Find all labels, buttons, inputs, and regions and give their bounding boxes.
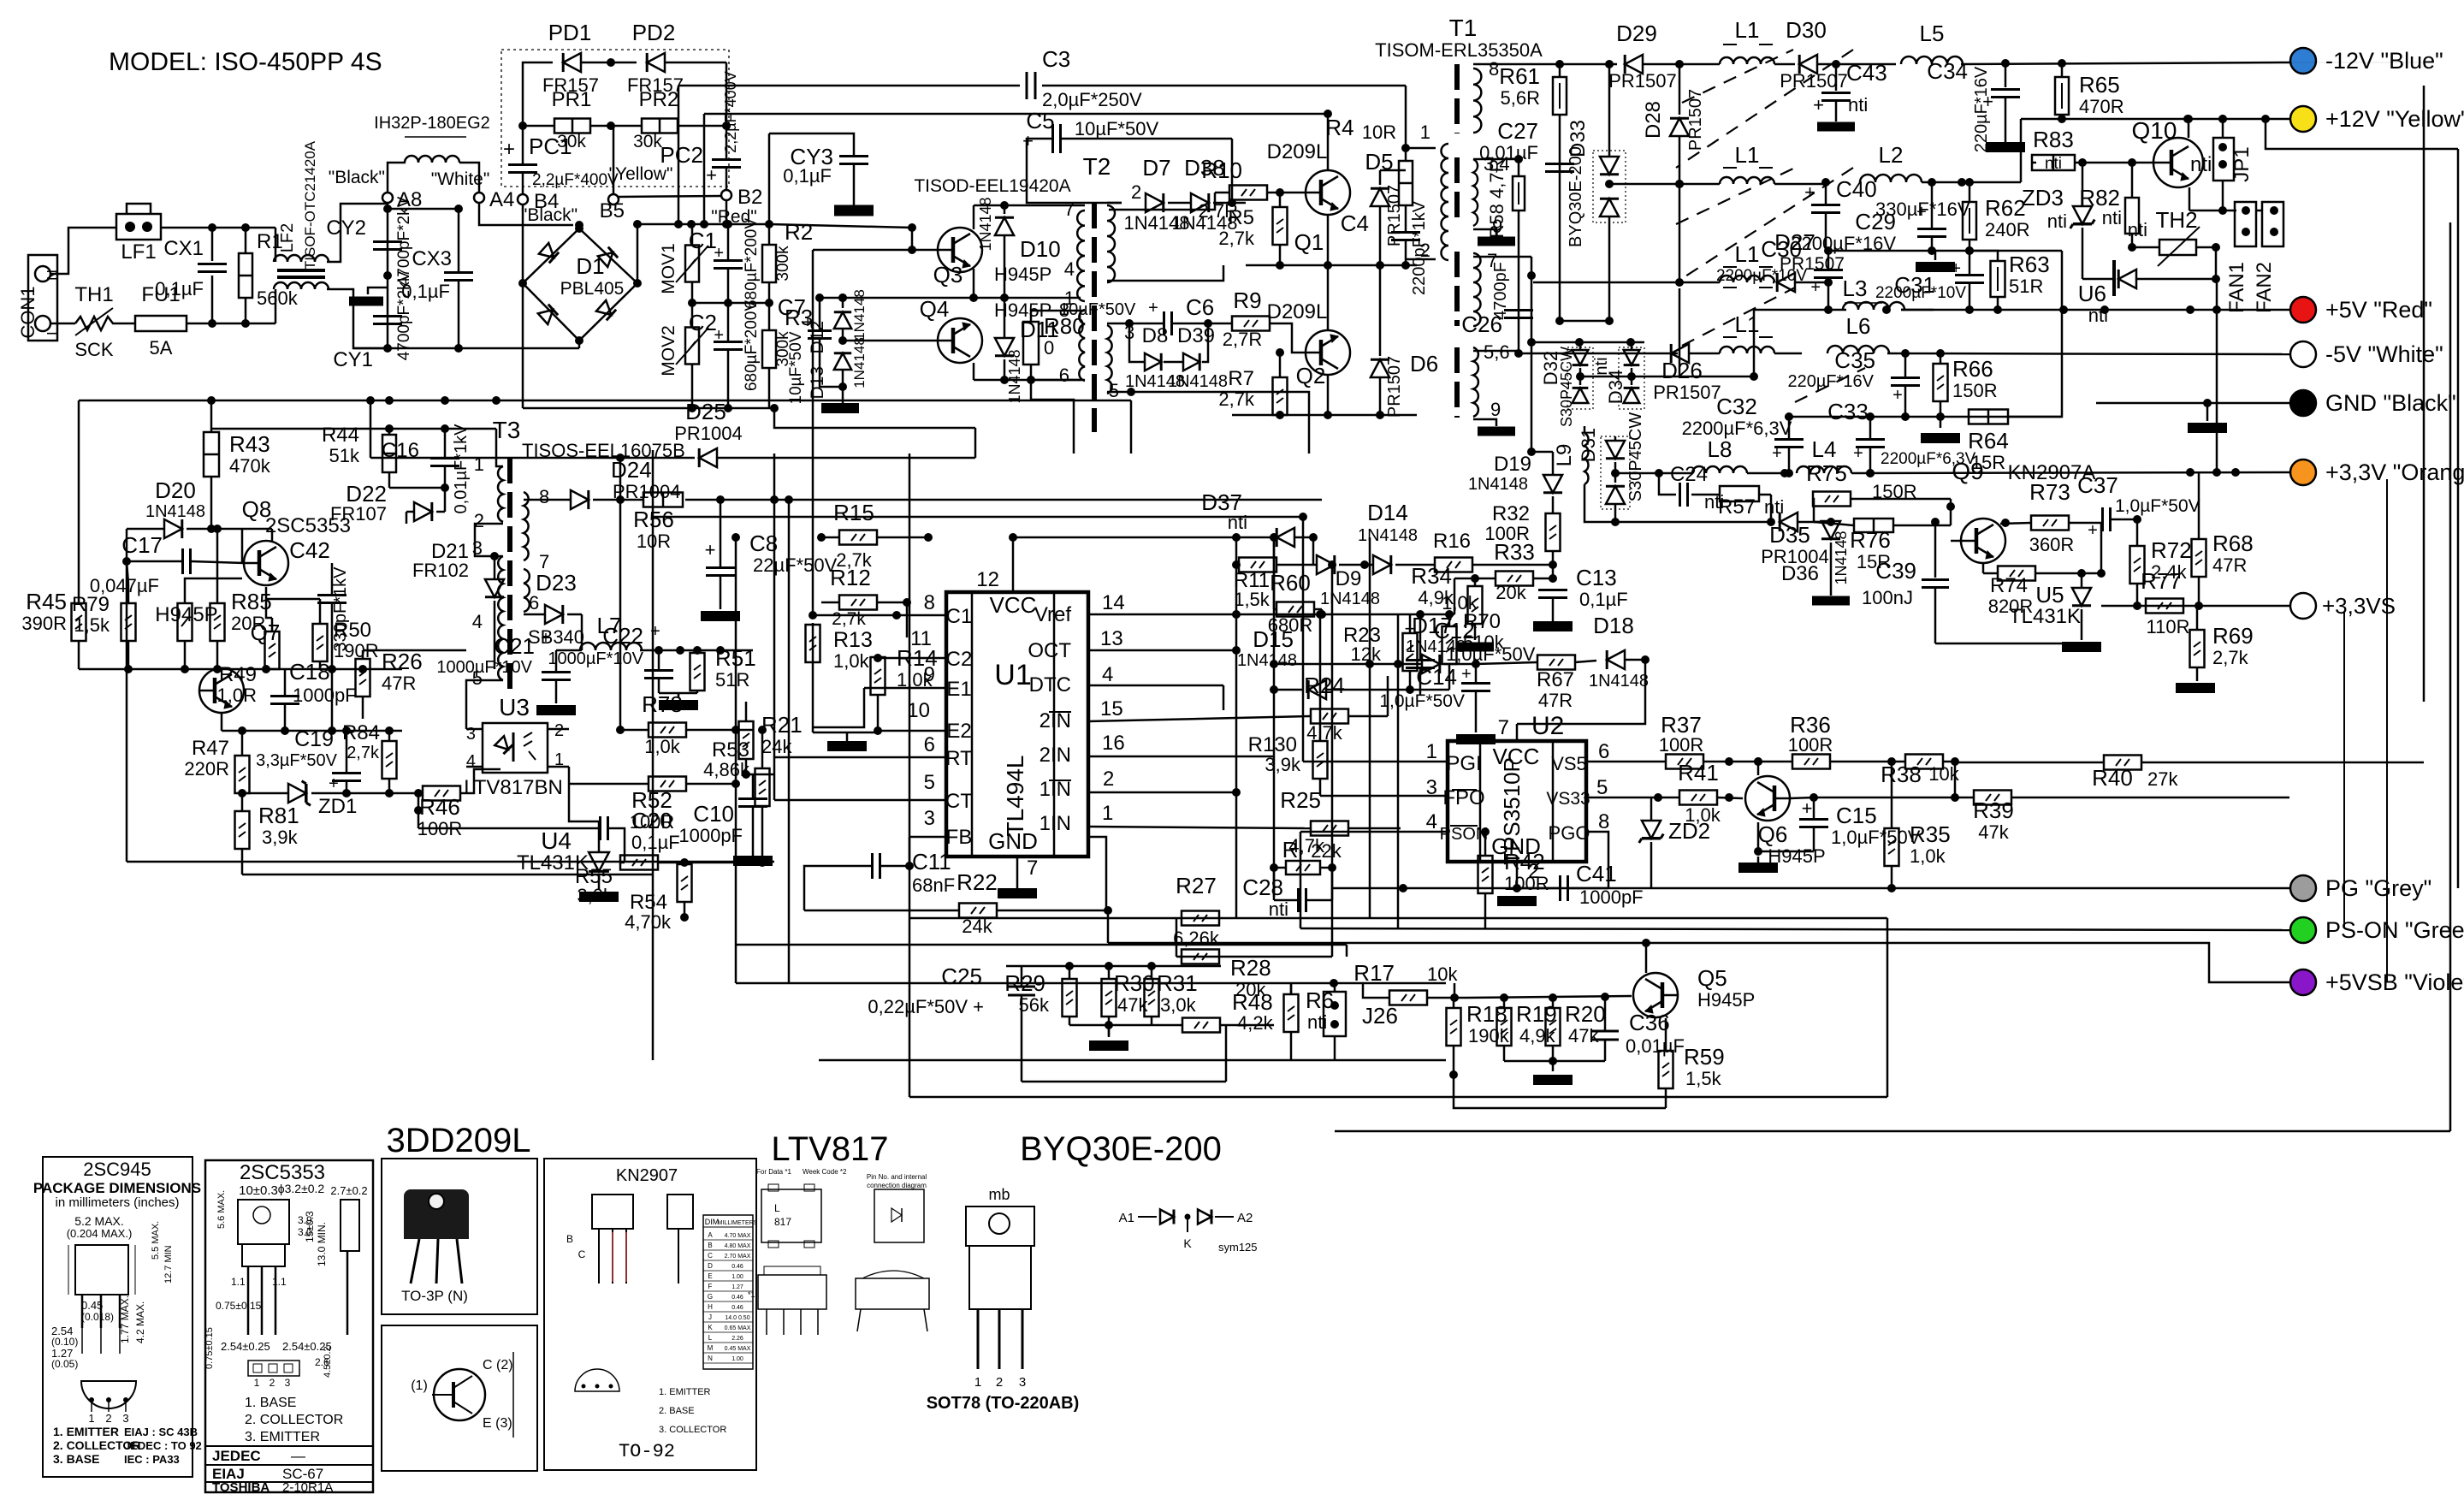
svg-text:PR1507: PR1507 — [1780, 70, 1848, 92]
terminal PG Grey — [2290, 875, 2316, 901]
svg-text:(0.10): (0.10) — [51, 1336, 78, 1348]
svg-text:R59: R59 — [1684, 1044, 1725, 1070]
wire to Q1 — [1232, 202, 1246, 205]
svg-text:3: 3 — [1019, 1375, 1026, 1390]
svg-text:2200µF*10V: 2200µF*10V — [1875, 284, 1966, 302]
svg-text:C34: C34 — [1927, 58, 1968, 84]
resistor R82 — [2125, 198, 2139, 234]
svg-text:D13: D13 — [808, 366, 827, 400]
svg-text:C21: C21 — [494, 633, 535, 659]
resistor R19 — [1497, 1008, 1512, 1046]
svg-text:GND: GND — [988, 828, 1038, 854]
wire A8 to CX3 — [388, 208, 459, 210]
resistor R26 — [356, 659, 370, 697]
svg-text:(0.204 MAX.): (0.204 MAX.) — [67, 1227, 133, 1240]
MOV1 — [685, 246, 699, 282]
svg-text:2.70 MAX: 2.70 MAX — [725, 1254, 751, 1260]
svg-text:PD2: PD2 — [632, 20, 676, 45]
resistor R81 — [235, 811, 250, 849]
svg-text:10±0.3: 10±0.3 — [239, 1183, 278, 1198]
connector FAN1 — [2235, 202, 2256, 246]
svg-text:R63: R63 — [2009, 252, 2050, 277]
wire +B rail — [79, 400, 1131, 402]
svg-text:R22: R22 — [957, 869, 998, 895]
svg-text:PGI: PGI — [1446, 752, 1481, 775]
wire mid rail — [1826, 250, 2062, 252]
wire -12V rail — [1560, 63, 1617, 66]
svg-text:JP1: JP1 — [2230, 146, 2254, 181]
svg-text:ZD3: ZD3 — [2022, 185, 2064, 210]
resistor R29 — [1063, 979, 1077, 1017]
svg-text:C24: C24 — [1670, 463, 1708, 486]
svg-text:PR1507: PR1507 — [1385, 185, 1404, 246]
svg-text:12: 12 — [976, 568, 999, 591]
terminal +3,3V Orange — [2290, 459, 2316, 485]
svg-text:13: 13 — [1100, 627, 1123, 650]
svg-text:4.5±0.2: 4.5±0.2 — [323, 1346, 333, 1378]
svg-text:Q5: Q5 — [1697, 965, 1727, 991]
svg-text:+5VSB "Violet": +5VSB "Violet" — [2325, 969, 2464, 995]
svg-text:TISOF-OTC21420A: TISOF-OTC21420A — [302, 140, 318, 270]
wire +3,3V rail — [1615, 472, 1691, 475]
resistor R63 — [1991, 261, 2005, 297]
resistor R6 — [1284, 994, 1299, 1032]
resistor R70 — [1442, 626, 1457, 664]
svg-text:C37: C37 — [2077, 472, 2118, 498]
ground — [1812, 596, 1850, 606]
svg-text:1,5k: 1,5k — [1685, 1068, 1722, 1089]
wire row 400 — [1531, 341, 1644, 344]
svg-text:R47: R47 — [192, 737, 229, 760]
ground — [998, 888, 1037, 898]
svg-text:3: 3 — [924, 807, 935, 830]
wire Vref row — [1088, 614, 1454, 616]
svg-text:U2: U2 — [1531, 712, 1564, 740]
svg-text:0,01µF: 0,01µF — [1626, 1035, 1685, 1057]
wire pin 5,6 — [1473, 350, 1519, 353]
svg-text:PGO: PGO — [1549, 822, 1590, 844]
LTV817 drawing top left — [761, 1189, 821, 1242]
svg-text:D39: D39 — [1177, 324, 1215, 347]
svg-text:3,9k: 3,9k — [262, 827, 299, 848]
svg-text:0,1µF: 0,1µF — [1579, 589, 1628, 610]
svg-text:4: 4 — [1102, 663, 1113, 686]
wire R27 line — [909, 917, 1887, 920]
terminal +3,3VS — [2290, 593, 2316, 619]
svg-text:PR1507: PR1507 — [1653, 382, 1721, 403]
svg-text:4: 4 — [472, 611, 483, 632]
svg-text:R9: R9 — [1233, 288, 1261, 313]
resistor R35 — [1885, 828, 1899, 866]
svg-text:+: + — [1461, 665, 1472, 684]
svg-text:1,0R: 1,0R — [217, 685, 257, 706]
svg-text:0.46: 0.46 — [731, 1295, 743, 1301]
resistor R18 — [1447, 1008, 1461, 1046]
svg-text:MODEL: ISO-450PP 4S: MODEL: ISO-450PP 4S — [109, 48, 382, 76]
svg-text:+: + — [714, 244, 724, 263]
coupled-inductor dashed lines — [1682, 50, 1793, 103]
svg-text:N: N — [44, 270, 62, 281]
svg-text:220µF*16V: 220µF*16V — [1788, 372, 1875, 391]
wire pin7 drop — [1531, 257, 1533, 452]
ground — [733, 856, 773, 866]
svg-text:8: 8 — [1489, 58, 1499, 80]
svg-text:PG "Grey": PG "Grey" — [2325, 875, 2431, 901]
svg-text:220R: 220R — [184, 758, 229, 780]
svg-text:A1: A1 — [1119, 1211, 1134, 1225]
svg-text:0.65 MAX: 0.65 MAX — [725, 1325, 751, 1331]
svg-text:56k: 56k — [1019, 994, 1050, 1016]
svg-text:R83: R83 — [2033, 127, 2074, 152]
svg-text:3,9k: 3,9k — [1265, 754, 1301, 775]
svg-text:1000µF*10V: 1000µF*10V — [436, 658, 532, 677]
svg-text:+: + — [1813, 94, 1824, 116]
svg-text:H945P: H945P — [1697, 989, 1755, 1011]
ground — [2176, 683, 2215, 693]
svg-text:R20: R20 — [1565, 1001, 1606, 1027]
wire 2INb row — [1088, 716, 1310, 721]
capacitor C41 — [1559, 875, 1561, 901]
svg-text:100R: 100R — [1788, 734, 1833, 756]
capacitor CY1 — [373, 315, 402, 317]
wire FB — [909, 836, 946, 839]
capacitor C11 — [871, 853, 874, 879]
svg-text:TISOM-ERL35350A: TISOM-ERL35350A — [1375, 39, 1543, 61]
resistor R130 — [1313, 741, 1328, 779]
svg-text:-5V "White": -5V "White" — [2325, 341, 2443, 367]
svg-text:TO-3P (N): TO-3P (N) — [401, 1288, 468, 1304]
svg-text:R56: R56 — [633, 507, 674, 532]
transistor Q4 — [938, 318, 982, 363]
svg-text:C42: C42 — [289, 537, 330, 563]
svg-text:R24: R24 — [1304, 673, 1345, 698]
svg-text:R44: R44 — [322, 424, 359, 447]
svg-text:51k: 51k — [329, 445, 360, 466]
svg-text:6: 6 — [1059, 365, 1069, 386]
svg-text:Q7: Q7 — [251, 620, 281, 645]
svg-text:IH32P-180EG2: IH32P-180EG2 — [374, 114, 490, 133]
capacitor CX3 — [458, 209, 460, 272]
svg-text:5,6R: 5,6R — [1501, 87, 1540, 109]
svg-text:0.46: 0.46 — [731, 1264, 743, 1270]
svg-text:2SC945: 2SC945 — [83, 1159, 151, 1180]
svg-text:2,2µF*400V: 2,2µF*400V — [722, 71, 739, 152]
svg-text:FB: FB — [946, 826, 973, 849]
svg-text:47R: 47R — [2212, 554, 2247, 576]
svg-text:L2: L2 — [1879, 142, 1904, 168]
wire verticals mid — [1273, 537, 1276, 897]
svg-text:6: 6 — [924, 733, 935, 756]
resistor R38 — [1905, 755, 1943, 769]
svg-text:C19: C19 — [294, 727, 334, 751]
svg-text:2: 2 — [554, 721, 564, 740]
svg-text:300k: 300k — [774, 246, 792, 282]
svg-text:TH1: TH1 — [74, 283, 113, 306]
svg-text:FR102: FR102 — [412, 560, 469, 581]
svg-text:KN2907: KN2907 — [616, 1166, 678, 1185]
svg-text:H945P: H945P — [155, 603, 217, 626]
svg-text:+: + — [1148, 299, 1158, 317]
svg-text:R57: R57 — [1718, 495, 1756, 519]
resistor R43 — [204, 432, 219, 477]
svg-text:2IN: 2IN — [1039, 709, 1071, 732]
svg-text:PR1507: PR1507 — [1385, 356, 1404, 418]
wire — [126, 528, 128, 531]
ground — [368, 288, 388, 294]
svg-text:F: F — [708, 1283, 713, 1290]
svg-text:1IN: 1IN — [1039, 778, 1071, 801]
svg-text:JEDEC : TO 92: JEDEC : TO 92 — [124, 1439, 202, 1452]
svg-text:A4: A4 — [489, 188, 514, 211]
svg-text:1000pF: 1000pF — [678, 825, 743, 846]
svg-text:D31: D31 — [1578, 428, 1599, 462]
svg-text:1IN: 1IN — [1039, 812, 1071, 835]
svg-text:1: 1 — [974, 1375, 981, 1390]
wire D32 D34 mid row — [1580, 376, 1754, 378]
diode symbol A1 A2 — [1138, 1216, 1157, 1218]
svg-text:10R: 10R — [1362, 122, 1396, 143]
svg-text:TO-92: TO-92 — [619, 1441, 675, 1462]
svg-text:J: J — [708, 1313, 712, 1321]
wire bus2 — [704, 113, 1328, 116]
svg-text:1000pF: 1000pF — [293, 685, 357, 706]
svg-text:22k: 22k — [1311, 840, 1342, 862]
wire bottom rail right — [523, 407, 774, 410]
svg-text:C16: C16 — [382, 439, 419, 462]
wire DTC — [1088, 685, 1223, 687]
svg-text:3. EMITTER: 3. EMITTER — [245, 1430, 320, 1444]
svg-text:R26: R26 — [382, 649, 423, 674]
svg-text:13.0 MIN.: 13.0 MIN. — [316, 1222, 328, 1266]
transistor Q6 — [1745, 776, 1790, 821]
svg-text:PR1507: PR1507 — [1686, 89, 1705, 151]
svg-text:D14: D14 — [1367, 500, 1408, 525]
svg-text:2.7±0.2: 2.7±0.2 — [330, 1184, 367, 1197]
jumper JP1 — [2213, 138, 2234, 181]
svg-text:C10: C10 — [693, 801, 734, 827]
svg-text:R28: R28 — [1230, 955, 1271, 981]
svg-text:nti: nti — [2128, 219, 2147, 240]
resistor R13 — [806, 625, 820, 662]
svg-text:47R: 47R — [1538, 690, 1573, 711]
svg-text:2200µF*6,3V: 2200µF*6,3V — [1682, 418, 1792, 439]
svg-text:"Black": "Black" — [329, 168, 385, 187]
resistor R1 — [245, 228, 247, 253]
package box 3DD209L photo — [382, 1159, 537, 1314]
svg-text:2IN: 2IN — [1039, 744, 1071, 767]
svg-text:5: 5 — [924, 771, 935, 794]
svg-text:C20: C20 — [631, 808, 672, 833]
svg-text:C11: C11 — [912, 849, 951, 874]
svg-text:(0.05): (0.05) — [51, 1358, 78, 1370]
svg-text:in millimeters (inches): in millimeters (inches) — [55, 1195, 179, 1210]
svg-text:PBL405: PBL405 — [560, 279, 625, 299]
svg-text:R68: R68 — [2212, 531, 2254, 556]
svg-text:+: + — [1951, 259, 1961, 278]
wire pin 3,4 — [1473, 158, 1519, 161]
wire right-edge verticals — [2423, 86, 2425, 702]
wire OCT — [1088, 649, 1236, 652]
svg-text:1. BASE: 1. BASE — [245, 1396, 296, 1410]
svg-text:68nF: 68nF — [912, 874, 955, 896]
svg-text:R69: R69 — [2212, 623, 2254, 649]
svg-text:D17: D17 — [1412, 613, 1453, 638]
svg-text:15±0.3: 15±0.3 — [304, 1211, 316, 1242]
wire R28 line — [1176, 956, 1332, 958]
svg-text:B2: B2 — [737, 186, 762, 209]
svg-text:D34: D34 — [1605, 370, 1626, 404]
svg-text:470R: 470R — [2079, 96, 2124, 117]
svg-text:Q6: Q6 — [1758, 821, 1788, 847]
svg-text:FAN1: FAN1 — [2225, 262, 2248, 313]
svg-text:R67: R67 — [1537, 668, 1574, 691]
svg-text:R43: R43 — [229, 431, 270, 457]
resistor R72 — [2130, 546, 2145, 584]
svg-text:-12V "Blue": -12V "Blue" — [2325, 48, 2443, 74]
terminal +12V Yellow — [2290, 106, 2316, 132]
svg-text:ZD1: ZD1 — [318, 795, 357, 818]
ground — [1533, 621, 1573, 631]
resistor R52 — [649, 777, 686, 791]
svg-text:2.26: 2.26 — [731, 1336, 743, 1342]
capacitor C1 — [727, 224, 730, 260]
svg-text:R50: R50 — [334, 619, 371, 642]
svg-text:R25: R25 — [1280, 787, 1321, 813]
svg-text:R78: R78 — [642, 691, 683, 717]
svg-text:1N4148: 1N4148 — [1237, 651, 1297, 670]
ground — [1473, 419, 1496, 426]
svg-text:ϕ3.2±0.2: ϕ3.2±0.2 — [278, 1182, 325, 1195]
svg-text:L3: L3 — [1843, 276, 1868, 301]
svg-text:SOT78 (TO-220AB): SOT78 (TO-220AB) — [927, 1394, 1080, 1413]
wire GND rail — [2096, 402, 2289, 405]
svg-text:R16: R16 — [1433, 530, 1471, 553]
wire bottom loop — [1022, 1081, 1226, 1083]
svg-text:1: 1 — [474, 454, 484, 475]
svg-text:10µF*50V: 10µF*50V — [787, 331, 805, 404]
svg-text:R75: R75 — [1806, 460, 1847, 486]
package box 2SC945 — [43, 1157, 192, 1477]
wire top row — [211, 428, 496, 430]
LTV817 drawing bottom right — [856, 1278, 929, 1309]
wire Q10 emitter — [2189, 187, 2191, 210]
svg-text:N: N — [708, 1355, 713, 1362]
svg-text:15: 15 — [1100, 697, 1123, 720]
svg-text:connection diagram: connection diagram — [867, 1182, 927, 1189]
svg-text:Vref: Vref — [1034, 603, 1071, 626]
resistor R20 — [1546, 1008, 1561, 1046]
svg-text:CX3: CX3 — [412, 247, 452, 270]
svg-text:R41: R41 — [1678, 760, 1719, 786]
svg-text:2SC5353: 2SC5353 — [240, 1161, 325, 1184]
svg-text:2: 2 — [1420, 240, 1430, 261]
ground — [1456, 734, 1496, 744]
filter LF1 — [116, 214, 161, 240]
svg-text:J26: J26 — [1362, 1003, 1398, 1029]
wire PS-ON line — [1300, 928, 2289, 930]
svg-text:1.00: 1.00 — [731, 1274, 743, 1280]
svg-text:5,6: 5,6 — [1484, 341, 1510, 363]
ground — [2188, 423, 2227, 433]
wire pin5 — [1107, 391, 1131, 394]
package box 2SC5353 — [205, 1160, 373, 1492]
package box KN2907 — [544, 1159, 756, 1470]
T1 primary winding — [1442, 144, 1449, 260]
resistor R80 — [1023, 322, 1039, 365]
svg-text:C41: C41 — [1576, 861, 1617, 886]
svg-text:D29: D29 — [1616, 21, 1657, 46]
resistor R56 — [643, 493, 683, 507]
wire bottom rails — [819, 1059, 1446, 1062]
node A4 — [474, 193, 484, 203]
svg-text:C33: C33 — [1827, 399, 1869, 424]
package box 3DD209L symbol — [382, 1325, 537, 1471]
capacitor C36 — [1591, 1030, 1619, 1033]
svg-text:1N4148: 1N4148 — [851, 337, 868, 388]
T1 secondary windings — [1473, 68, 1481, 133]
svg-text:R48: R48 — [1232, 989, 1273, 1015]
svg-text:5: 5 — [1109, 380, 1119, 401]
resistor R14 — [871, 657, 885, 695]
svg-text:8: 8 — [924, 591, 935, 614]
ground — [1986, 142, 2025, 152]
svg-text:10µF*50V: 10µF*50V — [1059, 300, 1136, 319]
svg-text:PR1507: PR1507 — [1608, 70, 1677, 92]
svg-text:R39: R39 — [1973, 797, 2014, 823]
svg-text:nti: nti — [2088, 305, 2108, 326]
ground — [1456, 643, 1494, 652]
svg-text:+: + — [705, 539, 716, 560]
capacitor C3 — [1026, 72, 1028, 99]
svg-text:VS33: VS33 — [1546, 789, 1590, 809]
svg-text:D24: D24 — [611, 457, 652, 483]
svg-text:10R: 10R — [637, 531, 671, 552]
svg-text:1,5k: 1,5k — [1234, 589, 1270, 610]
MOV2 — [685, 328, 699, 365]
svg-text:(1): (1) — [411, 1378, 428, 1393]
svg-text:2,7k: 2,7k — [832, 609, 866, 629]
svg-text:R46: R46 — [419, 794, 460, 820]
svg-text:nti: nti — [2190, 153, 2212, 176]
svg-text:nti: nti — [2047, 210, 2067, 232]
svg-text:+: + — [714, 326, 724, 345]
svg-text:+: + — [706, 164, 717, 186]
svg-text:R18: R18 — [1466, 1001, 1507, 1027]
wire — [50, 228, 116, 274]
svg-text:nti: nti — [1228, 512, 1247, 533]
wire — [1327, 265, 1330, 330]
wire PG line — [1332, 887, 2289, 890]
svg-text:1N4148: 1N4148 — [1006, 349, 1023, 403]
svg-text:CT: CT — [945, 790, 973, 813]
capacitor CX1 — [211, 228, 214, 261]
svg-text:C40: C40 — [1836, 176, 1877, 202]
svg-text:1.00: 1.00 — [731, 1356, 743, 1362]
svg-text:LTV817BN: LTV817BN — [464, 776, 563, 799]
2SC5353 table — [205, 1445, 373, 1447]
node B4 — [518, 194, 528, 205]
svg-text:U4: U4 — [541, 827, 572, 854]
svg-text:12k: 12k — [1351, 643, 1382, 665]
svg-text:C2: C2 — [946, 648, 973, 671]
svg-text:D209L: D209L — [1267, 300, 1328, 323]
capacitor C24 — [1659, 473, 1676, 495]
svg-text:D10: D10 — [1020, 236, 1061, 262]
svg-text:4.80 MAX: 4.80 MAX — [725, 1243, 751, 1249]
svg-text:0.45 MAX: 0.45 MAX — [725, 1346, 751, 1352]
svg-text:3,0k: 3,0k — [577, 885, 613, 906]
svg-text:G: G — [708, 1293, 713, 1301]
